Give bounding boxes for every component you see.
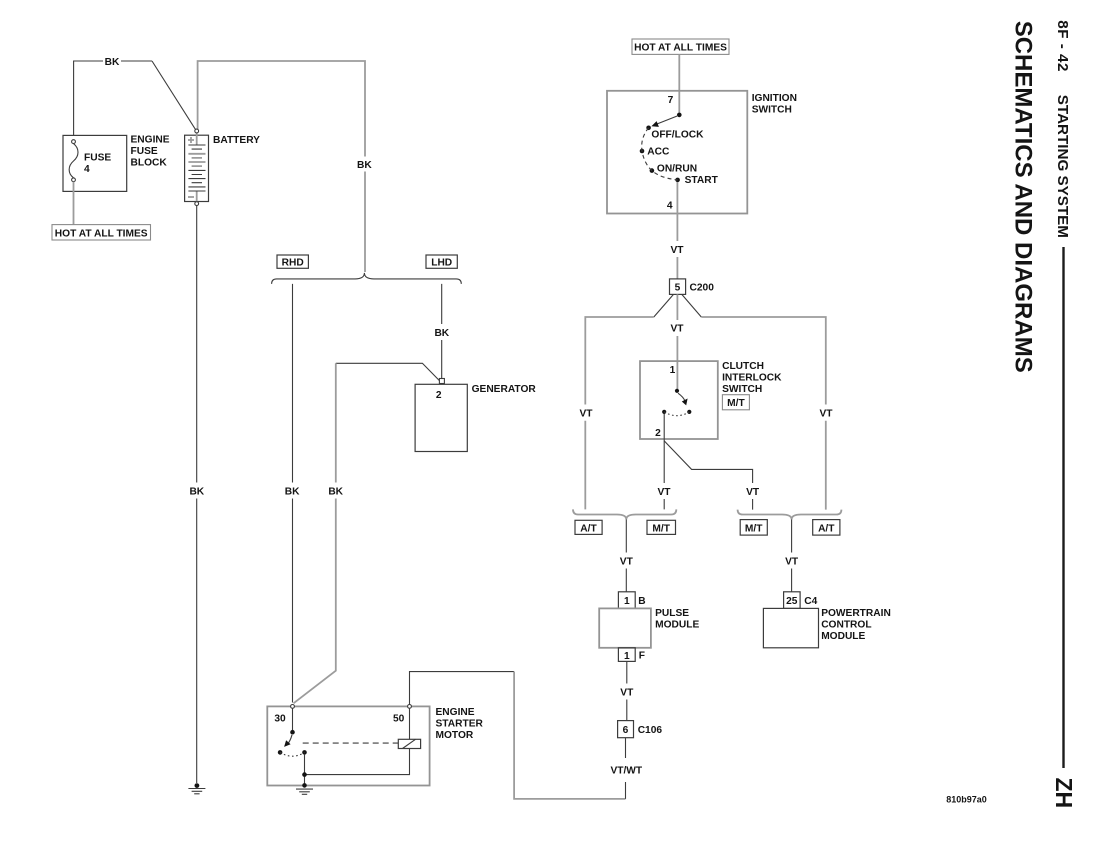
svg-text:MOTOR: MOTOR xyxy=(436,730,474,741)
svg-text:RHD: RHD xyxy=(282,258,304,269)
node M/T tag clutch xyxy=(722,395,749,410)
ignition common dot xyxy=(677,113,682,118)
svg-text:ENGINE: ENGINE xyxy=(436,707,475,718)
wire start to pin4 gray xyxy=(676,182,678,279)
svg-text:FUSE: FUSE xyxy=(84,152,111,163)
svg-text:BATTERY: BATTERY xyxy=(213,135,260,146)
svg-text:2: 2 xyxy=(655,428,661,439)
wire fuse to hot label gray xyxy=(73,182,75,225)
svg-text:IGNITION: IGNITION xyxy=(752,93,797,104)
svg-text:HOT AT ALL TIMES: HOT AT ALL TIMES xyxy=(55,228,148,239)
battery plus mark xyxy=(188,137,194,143)
svg-text:M/T: M/T xyxy=(727,398,745,409)
brace RHD/LHD split xyxy=(272,273,462,284)
node LHD xyxy=(426,255,457,268)
svg-text:SWITCH: SWITCH xyxy=(722,384,762,395)
wire C200 left diagonal xyxy=(654,294,674,317)
ignition position dots xyxy=(646,126,651,131)
svg-text:810b97a0: 810b97a0 xyxy=(946,795,987,805)
svg-text:M/T: M/T xyxy=(745,523,763,534)
svg-text:BK: BK xyxy=(189,486,204,497)
battery minus mark xyxy=(188,196,194,198)
wire generator branch gray down xyxy=(294,363,336,703)
svg-text:POWERTRAIN: POWERTRAIN xyxy=(821,608,891,619)
svg-text:7: 7 xyxy=(668,95,674,106)
svg-text:8F - 42: 8F - 42 xyxy=(1054,20,1071,72)
header rule xyxy=(1062,247,1064,768)
wire terminal 50 to coil xyxy=(409,708,411,739)
svg-text:CLUTCH: CLUTCH xyxy=(722,361,764,372)
wire gray left A/T branch xyxy=(585,317,654,509)
svg-text:GENERATOR: GENERATOR xyxy=(472,384,537,395)
dashed link contact to coil xyxy=(303,742,399,744)
svg-text:ON/RUN: ON/RUN xyxy=(657,163,697,174)
pulse module box xyxy=(599,608,651,647)
node HOT AT ALL TIMES left xyxy=(52,225,151,240)
svg-text:ENGINE: ENGINE xyxy=(131,135,170,146)
relay coil xyxy=(398,739,420,748)
svg-text:C200: C200 xyxy=(690,282,715,293)
svg-text:CONTROL: CONTROL xyxy=(821,620,871,631)
wire C106 down to bottom rail xyxy=(625,738,627,799)
node A/T left xyxy=(575,520,602,534)
svg-text:VT: VT xyxy=(785,556,799,567)
node RHD xyxy=(277,255,308,268)
svg-text:START: START xyxy=(685,175,719,186)
svg-text:VT: VT xyxy=(670,324,684,335)
svg-text:4: 4 xyxy=(84,164,90,175)
node M/T left xyxy=(647,520,676,534)
ignition dashed arc xyxy=(642,128,678,180)
generator box xyxy=(415,384,467,451)
svg-text:1: 1 xyxy=(624,596,630,607)
svg-text:5: 5 xyxy=(675,283,681,294)
node A/T right xyxy=(813,520,840,536)
svg-text:C106: C106 xyxy=(638,725,663,736)
pulse module pin F box xyxy=(618,648,635,662)
svg-text:SWITCH: SWITCH xyxy=(752,105,792,116)
svg-text:B: B xyxy=(638,596,645,607)
wire pulse F to C106 xyxy=(626,661,628,720)
brace left A/T M/T xyxy=(573,509,676,519)
battery internal gray stubs xyxy=(196,132,198,202)
wire generator to bend black xyxy=(336,363,440,380)
svg-text:VT/WT: VT/WT xyxy=(610,766,642,777)
pulse module pin B box xyxy=(618,592,635,609)
wire battery negative down xyxy=(196,206,198,783)
wire hot to ignition gray xyxy=(678,54,680,113)
svg-text:VT: VT xyxy=(620,556,634,567)
svg-text:VT: VT xyxy=(657,487,671,498)
engine fuse block box xyxy=(63,135,127,191)
wire starter 50 loop black to corner xyxy=(410,672,515,705)
svg-text:VT: VT xyxy=(670,245,684,256)
wire right brace to PCM xyxy=(791,520,793,592)
ignition wiper arrow xyxy=(656,116,677,124)
svg-text:FUSE: FUSE xyxy=(131,146,158,157)
svg-text:M/T: M/T xyxy=(652,523,670,534)
svg-text:SCHEMATICS AND DIAGRAMS: SCHEMATICS AND DIAGRAMS xyxy=(1010,21,1037,373)
svg-text:VT: VT xyxy=(819,409,833,420)
powertrain control module box xyxy=(763,608,818,647)
brace right M/T A/T xyxy=(738,510,842,520)
wire gray right A/T branch xyxy=(701,317,826,510)
clutch contact dots xyxy=(687,410,691,414)
clutch common dot xyxy=(675,389,679,393)
ignition switch box xyxy=(607,91,747,214)
svg-text:4: 4 xyxy=(667,201,673,212)
generator terminal 2 square xyxy=(439,379,444,384)
svg-text:BLOCK: BLOCK xyxy=(131,158,168,169)
svg-text:30: 30 xyxy=(274,714,286,725)
svg-text:A/T: A/T xyxy=(818,523,835,534)
wire gray corner down and along bottom xyxy=(514,672,625,799)
wire clutch pin2 diagonal to right M/T xyxy=(664,441,752,510)
fuse F4 symbol xyxy=(69,144,78,178)
starter wire to ground and coil xyxy=(305,749,410,786)
starter contact dots xyxy=(278,750,283,755)
svg-text:2: 2 xyxy=(436,390,442,401)
svg-text:ACC: ACC xyxy=(647,147,670,158)
svg-text:STARTER: STARTER xyxy=(436,719,484,730)
svg-text:VT: VT xyxy=(579,409,593,420)
clutch interlock switch box xyxy=(640,361,718,439)
wire LHD branch down to generator xyxy=(441,284,443,378)
svg-text:50: 50 xyxy=(393,714,405,725)
wire gray middle to clutch xyxy=(676,294,678,389)
wire RHD branch down to starter 30 xyxy=(292,284,294,703)
svg-text:BK: BK xyxy=(105,57,120,68)
svg-text:25: 25 xyxy=(786,596,798,607)
powertrain pin box 25 xyxy=(784,592,801,609)
svg-text:BK: BK xyxy=(285,486,300,497)
wire C200 right diagonal xyxy=(682,294,702,317)
clutch wiper arrow xyxy=(678,393,685,401)
svg-text:BK: BK xyxy=(357,160,372,171)
svg-text:1: 1 xyxy=(670,365,676,376)
svg-text:VT: VT xyxy=(746,487,760,498)
svg-text:6: 6 xyxy=(623,725,629,736)
wire top rail black left segment xyxy=(74,61,152,135)
ground battery xyxy=(195,783,200,788)
clutch dotted arc xyxy=(664,412,689,416)
wire gray battery feed rail xyxy=(198,61,365,272)
svg-text:C4: C4 xyxy=(804,596,817,607)
connector C200 box xyxy=(670,279,686,295)
node HOT AT ALL TIMES top xyxy=(632,39,729,54)
svg-text:STARTING SYSTEM: STARTING SYSTEM xyxy=(1054,95,1071,238)
svg-text:ZH: ZH xyxy=(1051,778,1077,809)
svg-text:MODULE: MODULE xyxy=(655,620,699,631)
starter switch arrow xyxy=(288,735,293,745)
node M/T right xyxy=(740,520,767,536)
svg-text:MODULE: MODULE xyxy=(821,631,865,642)
battery terminals xyxy=(195,129,199,133)
connector C106 box xyxy=(618,721,634,738)
svg-text:INTERLOCK: INTERLOCK xyxy=(722,372,782,383)
battery box xyxy=(185,135,209,201)
wire left brace to pulse module xyxy=(625,520,627,592)
wire diagonal to battery positive xyxy=(152,61,196,130)
svg-text:HOT AT ALL TIMES: HOT AT ALL TIMES xyxy=(634,43,727,54)
wire clutch pin2 down xyxy=(663,414,665,509)
starter terminal 50 xyxy=(408,705,412,709)
svg-text:BK: BK xyxy=(328,486,343,497)
starter ground xyxy=(302,783,307,788)
svg-text:PULSE: PULSE xyxy=(655,608,689,619)
starter switch contact from 30 xyxy=(292,708,294,730)
starter terminal 30 xyxy=(291,705,295,709)
svg-text:F: F xyxy=(639,651,645,662)
svg-text:LHD: LHD xyxy=(431,258,452,269)
battery plates xyxy=(188,145,205,149)
svg-text:A/T: A/T xyxy=(580,523,597,534)
starter dotted arc xyxy=(280,752,304,756)
svg-text:1: 1 xyxy=(624,651,630,662)
engine starter motor box xyxy=(267,706,429,785)
svg-text:BK: BK xyxy=(434,328,449,339)
svg-text:OFF/LOCK: OFF/LOCK xyxy=(651,129,704,140)
svg-text:VT: VT xyxy=(620,687,634,698)
